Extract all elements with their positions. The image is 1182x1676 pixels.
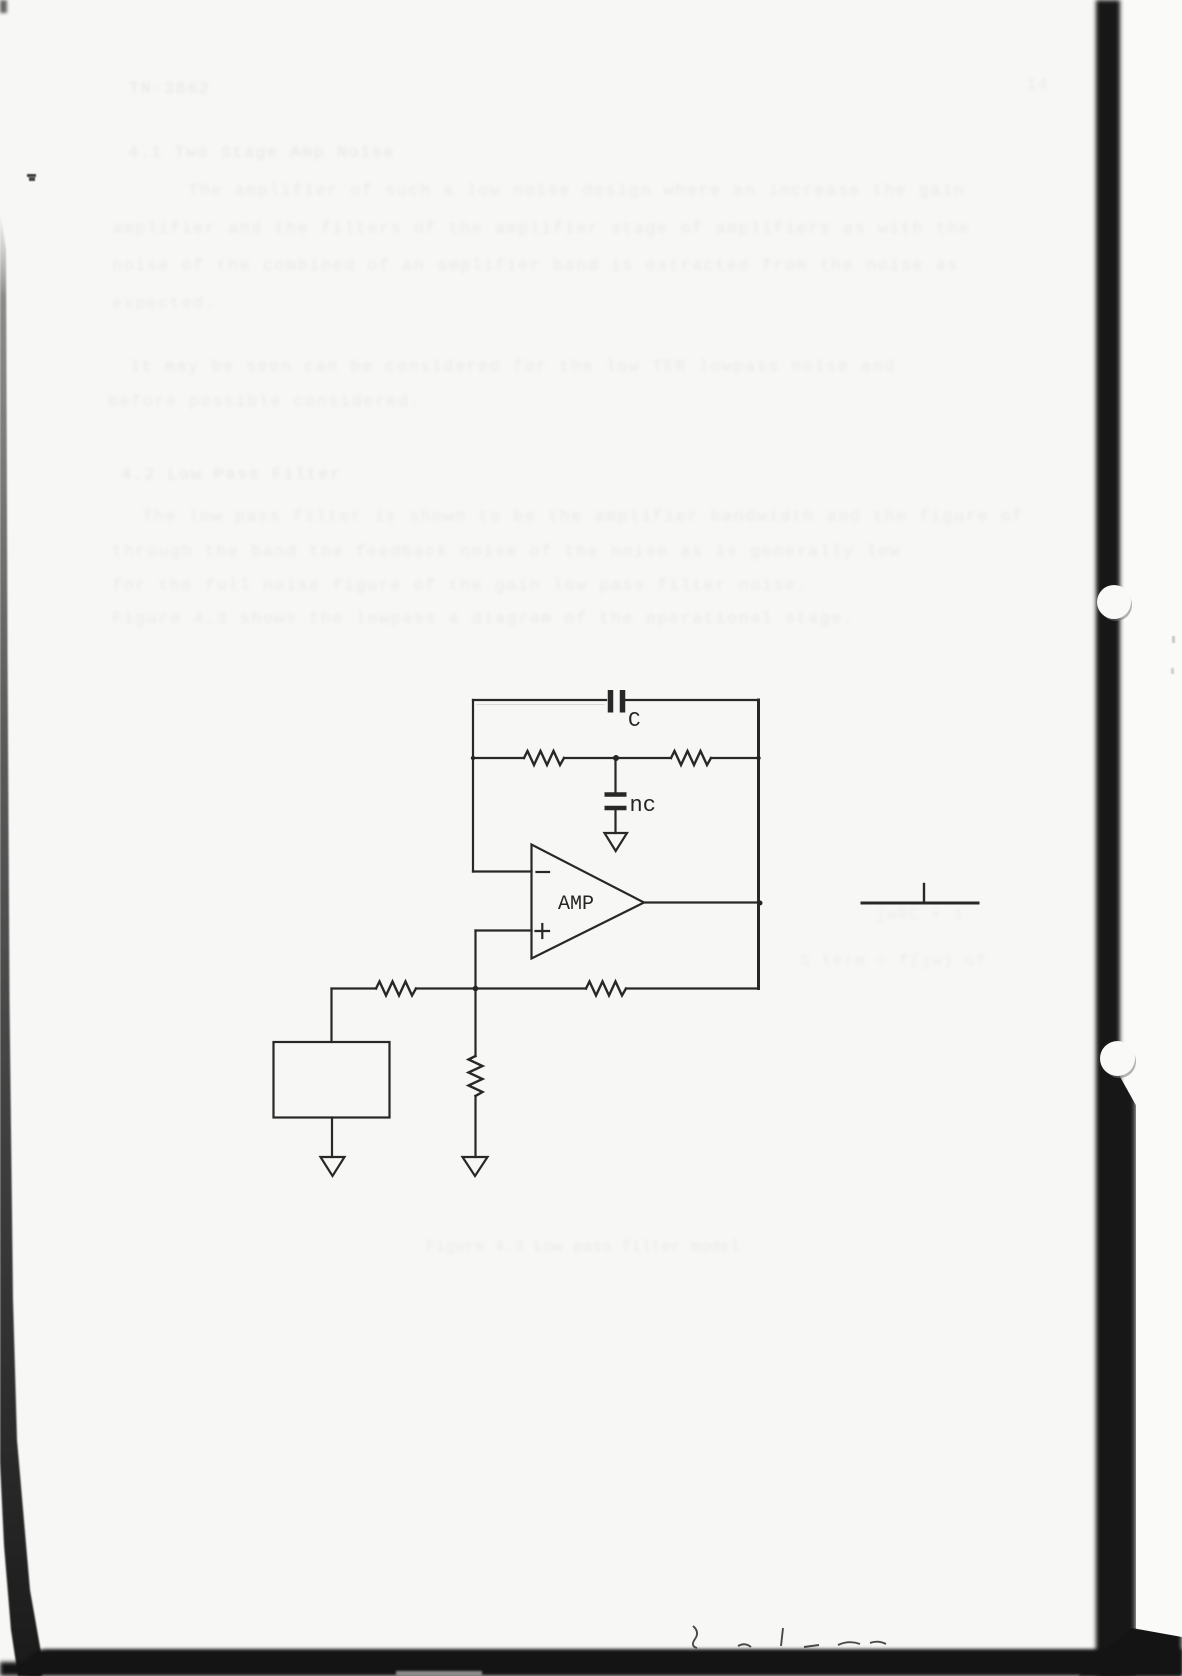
node: middle feedback junction [613, 755, 619, 761]
formula fraction bar [862, 902, 978, 905]
capacitor nc [605, 795, 627, 809]
wire: middle feedback line, left segment [473, 757, 524, 759]
ground: nc branch [605, 833, 628, 851]
small pen marks above bottom band [680, 1622, 900, 1656]
node: non-inverting junction [473, 986, 479, 992]
punch hole 1 [1097, 585, 1131, 619]
svg-text:AMP: AMP [558, 893, 594, 916]
bottom black band [26, 1649, 1182, 1676]
wire: middle node to R2 [616, 757, 671, 759]
ground: divider branch [463, 1157, 488, 1176]
wire: non-inverting input drop to bottom node [474, 931, 476, 989]
wire: source box riser [330, 989, 332, 1043]
ground: source branch [321, 1157, 345, 1176]
wire: nc to ground [614, 810, 616, 833]
faint paragraph 3 [142, 508, 1024, 527]
formula numerator tick (1) [923, 884, 925, 901]
right edge black bar [1096, 0, 1120, 1676]
punch hole 2 [1100, 1041, 1135, 1076]
op-amp non-inverting input marker (+) [536, 924, 550, 938]
wire: top feedback, left node to capacitor C [473, 699, 606, 701]
resistor R5 (to ground) [469, 1056, 483, 1096]
resistor R2 [671, 751, 711, 765]
faint section heading [128, 144, 395, 163]
svg-text:C: C [628, 710, 641, 733]
svg-text:nc: nc [630, 793, 656, 818]
faint paragraph 2 [130, 358, 896, 377]
wire: R2 to right bus [711, 757, 758, 759]
faint page header [129, 80, 210, 99]
faint section heading 2 [121, 466, 341, 485]
wire: op-amp output [644, 901, 759, 903]
capacitor C [611, 690, 623, 713]
wire: right vertical bus (output to feedback) [757, 700, 760, 989]
wire: left vertical bus (to inverting input) [472, 700, 474, 872]
node: output joins right bus [758, 901, 763, 906]
left edge scan strip [0, 0, 60, 1676]
wire: inverting input [473, 870, 532, 872]
wire: + node to R4 [476, 987, 587, 989]
dark speck top-left corner [0, 0, 7, 13]
wire: R1 to middle node [564, 757, 616, 759]
resistor R1 [524, 751, 564, 765]
source box [274, 1042, 390, 1118]
node: left end of feedback line [471, 756, 475, 760]
wire: capacitor C to top-right corner [626, 699, 758, 701]
wire: R4 to right bus [626, 987, 759, 989]
wire: R5 to ground [474, 1096, 476, 1157]
wire: box to ground [331, 1118, 333, 1158]
wire: middle node down to capacitor nc [614, 758, 616, 792]
resistor R4 (feedback to + node) [586, 982, 626, 996]
wire: R3 to + node [416, 987, 476, 989]
wire: bottom line, far-left segment [332, 987, 377, 989]
faint formula denominator + second formula line [876, 906, 964, 924]
op-amp U1 [532, 845, 645, 959]
wire: + node down to R5 [474, 989, 476, 1057]
node: right end of feedback line [756, 756, 760, 760]
wire: non-inverting input [476, 929, 532, 931]
op-amp inverting input marker (-) [537, 871, 550, 873]
small dark mark at left margin [27, 174, 36, 177]
faint figure caption [426, 1238, 740, 1256]
faint paragraph 1 [188, 182, 965, 201]
resistor R3 (source input) [376, 982, 416, 996]
